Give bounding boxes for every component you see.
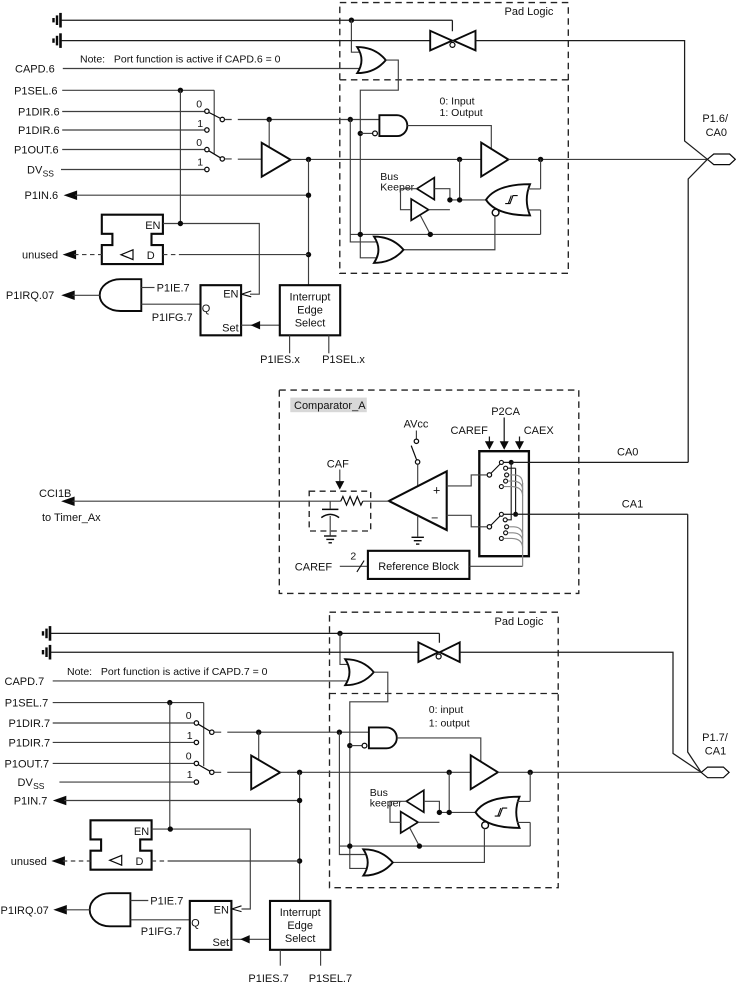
junction to OR U3 xyxy=(348,117,353,122)
wire CA0 node to exchange contact B2 xyxy=(507,462,511,519)
contact P1DIR.6-1 xyxy=(205,128,209,132)
ground symbol (comparator) xyxy=(412,537,424,544)
wire CA0 xyxy=(511,461,688,463)
arrow unused (bottom) xyxy=(51,856,65,866)
transmission gate U1 (P1.6 analog switch) xyxy=(430,31,475,51)
wire pin to keeper node (bottom) xyxy=(448,772,450,812)
pin pad P1.7/CA1 xyxy=(701,767,729,778)
svg-text:1: Output: 1: Output xyxy=(440,107,483,119)
svg-text:CAREF: CAREF xyxy=(451,425,489,437)
junction to OR U13 xyxy=(337,730,342,735)
buffer U6 (output path) xyxy=(262,143,291,177)
wire OR U12 output to NAND bubble / OR U13 xyxy=(350,672,388,868)
junction driver enable xyxy=(267,117,272,122)
svg-text:CAEX: CAEX xyxy=(524,425,555,437)
svg-text:P1IES.x: P1IES.x xyxy=(260,354,300,366)
wire edge select to Set xyxy=(241,324,280,326)
svg-text:CA1: CA1 xyxy=(705,746,726,758)
wire capacitor C1 top lead xyxy=(329,501,331,509)
svg-text:unused: unused xyxy=(22,249,58,261)
switch S2 common xyxy=(220,157,224,161)
svg-text:P2CA: P2CA xyxy=(491,406,520,418)
svg-text:1: 1 xyxy=(197,156,203,168)
ground symbol G4 (bottom) xyxy=(43,645,50,660)
contact P1DIR.6-0 xyxy=(205,109,209,113)
wire schmitt input from pin (bottom) xyxy=(517,772,530,801)
OR gate U3 (keeper enable) xyxy=(374,237,404,263)
wire B1 to CA1 node xyxy=(503,513,513,515)
svg-text:0: 0 xyxy=(186,710,192,722)
bus slash (2) xyxy=(357,561,364,572)
svg-text:Pad Logic: Pad Logic xyxy=(495,616,544,628)
AND gate U18 (interrupt) xyxy=(90,893,131,926)
wire keeper Q4 output to node xyxy=(418,821,439,823)
interrupt flag latch FF1 xyxy=(201,285,242,335)
arrow P1IRQ.07 (bottom) xyxy=(53,905,67,915)
svg-text:AVcc: AVcc xyxy=(404,418,429,430)
svg-text:Select: Select xyxy=(295,317,326,329)
svg-text:Set: Set xyxy=(212,937,229,949)
arrow Set (FF2) xyxy=(240,935,250,943)
junction ground1/OR branch xyxy=(349,18,354,23)
wire resistor to comparator tip xyxy=(363,500,389,502)
wire keeper Q1 input from node xyxy=(434,189,450,200)
svg-text:P1IES.7: P1IES.7 xyxy=(248,973,288,984)
svg-text:CAREF: CAREF xyxy=(295,561,333,573)
schmitt NOR U7 (mirrored) xyxy=(486,184,530,215)
svg-text:P1.7/: P1.7/ xyxy=(702,732,729,744)
wire ground4 to transmission gate xyxy=(51,651,419,653)
wire schmitt input 2 (bottom) xyxy=(517,822,530,846)
svg-text:P1IN.7: P1IN.7 xyxy=(14,796,48,808)
unused latch L1 (EN/D) xyxy=(102,215,163,264)
svg-text:D: D xyxy=(147,250,155,262)
wire pin to keeper node xyxy=(459,159,461,200)
wire comparator ground stub xyxy=(417,516,419,537)
contact DVss-1 (bottom) xyxy=(194,780,198,784)
wire P1IN.6 xyxy=(75,194,309,196)
stub P1SEL.7 xyxy=(320,950,322,966)
junction P1IN.6 xyxy=(306,193,311,198)
transmission gate U11 (P1.7 analog switch) xyxy=(418,642,459,662)
Pad Logic dashed box (P1.7) xyxy=(330,612,559,888)
interrupt edge select block (bottom) xyxy=(270,901,330,950)
ground symbol (CAF) xyxy=(324,536,336,543)
svg-text:CA1: CA1 xyxy=(622,499,643,511)
svg-text:EN: EN xyxy=(214,904,229,916)
arrowhead P2CA xyxy=(500,441,509,450)
svg-text:P1IE.7: P1IE.7 xyxy=(157,282,190,294)
wire DIR signal down to OR U13 input A xyxy=(339,732,365,854)
wire P1SEL.7 + switch control xyxy=(53,703,204,767)
mux wiper (+ input) xyxy=(491,464,500,473)
wire driver U5 to pin P1.6 xyxy=(508,158,707,160)
svg-text:keeper: keeper xyxy=(370,797,403,809)
svg-text:to Timer_Ax: to Timer_Ax xyxy=(42,512,101,524)
OR gate U13 (keeper enable) xyxy=(363,849,393,875)
svg-text:Keeper: Keeper xyxy=(380,182,414,194)
wire driver U15 to pin P1.7 xyxy=(498,771,701,773)
interrupt edge select block (top) xyxy=(280,285,340,335)
wire T2 to CA1 node xyxy=(508,468,516,514)
wire B5 to ref bus xyxy=(503,538,522,548)
mux contact T4 xyxy=(504,479,508,483)
svg-text:DV: DV xyxy=(18,777,34,789)
wire P1SEL.6 + switch control xyxy=(62,90,214,154)
svg-text:Note: Port function is activ: Note: Port function is active if CAPD.6 … xyxy=(80,54,281,66)
wire keeper enable (slanted) xyxy=(420,215,430,234)
svg-text:0: 0 xyxy=(196,99,202,111)
wire schmitt input 2 xyxy=(528,210,541,235)
wire edge select to Set (bottom) xyxy=(231,938,270,940)
wire S1 to NAND U4 xyxy=(225,119,380,121)
arrow P1IN.7 xyxy=(53,796,67,806)
NAND U4 inverted input bubble xyxy=(373,131,378,136)
bubble on schmitt NOR U17 xyxy=(482,822,489,829)
wire pin sense vertical to edge select (bottom) xyxy=(299,772,301,901)
contact P1DIR.7-1 xyxy=(194,740,198,744)
wire CAPD.6 to OR U2 xyxy=(63,68,360,70)
svg-text:SS: SS xyxy=(43,168,55,178)
wire keeper enable slanted (bottom) xyxy=(410,828,420,846)
wire P1DIR.7 (0) xyxy=(53,722,195,724)
junction keeper node A xyxy=(447,197,452,202)
junction pin line / bus keeper (bottom) xyxy=(447,770,452,775)
stub to NAND bubble xyxy=(360,132,372,134)
switch S1 common xyxy=(220,117,224,121)
svg-text:Select: Select xyxy=(285,933,316,945)
wire comparator - input xyxy=(447,515,488,527)
ground symbol G3 (bottom) xyxy=(43,626,50,641)
stub P1IES.7 xyxy=(279,950,281,966)
wire pin sense vertical to edge select xyxy=(308,159,310,285)
wire capacitor C1 bottom lead xyxy=(329,516,331,535)
switch S2 wiper xyxy=(209,151,221,158)
mux contact B4 xyxy=(504,531,508,535)
wire OR U3 output to schmitt bubble xyxy=(404,216,495,250)
wire P1DIR.6 (1) xyxy=(62,129,205,131)
mux contact T1 (CA0) xyxy=(499,460,503,464)
svg-text:P1SEL.7: P1SEL.7 xyxy=(309,973,352,984)
Comparator_A label xyxy=(290,398,367,413)
svg-text:EN: EN xyxy=(134,826,149,838)
junction enable net/OR U2 branch xyxy=(358,232,363,237)
wire latch L1 EN to flag FF xyxy=(163,224,259,295)
switch S3 wiper xyxy=(198,724,210,731)
wire U8 output xyxy=(73,294,100,296)
wire P2CA arrow xyxy=(503,418,505,443)
wire pin P1.6 to CA0 xyxy=(688,159,707,462)
schmitt NOR U17 (mirrored) xyxy=(476,797,520,828)
svg-text:P1IE.7: P1IE.7 xyxy=(150,895,183,907)
svg-text:0: input: 0: input xyxy=(429,704,464,716)
svg-text:P1DIR.7: P1DIR.7 xyxy=(9,737,51,749)
wire P1DIR.6 (0) xyxy=(62,111,205,113)
junction OR U12 out / NAND input xyxy=(347,743,352,748)
svg-text:Reference Block: Reference Block xyxy=(378,561,459,573)
switch S1 wiper xyxy=(209,112,221,118)
svg-text:CAPD.6: CAPD.6 xyxy=(15,63,55,75)
wire unused dashed left xyxy=(74,254,102,256)
svg-text:+: + xyxy=(433,483,440,497)
svg-text:Interrupt: Interrupt xyxy=(280,907,321,919)
svg-text:CAF: CAF xyxy=(327,458,349,470)
EN wedge (FF2) xyxy=(232,906,242,912)
svg-text:1: 1 xyxy=(187,730,193,742)
pad logic inner divider (P1.7) xyxy=(330,693,559,695)
wire latch D dashed xyxy=(163,254,181,256)
svg-text:CAPD.7: CAPD.7 xyxy=(5,676,45,688)
wire unused dashed left (bottom) xyxy=(63,860,91,862)
comparator input mux box xyxy=(479,451,529,556)
wire U16 to driver U15 xyxy=(280,771,471,773)
svg-text:P1DIR.7: P1DIR.7 xyxy=(9,718,51,730)
svg-text:CCI1B: CCI1B xyxy=(39,488,71,500)
clock triangle (latch L2) xyxy=(110,855,122,865)
wire P1OUT.6 xyxy=(62,149,205,151)
wire keeper Q2 output to node xyxy=(429,209,450,211)
svg-text:DV: DV xyxy=(27,164,43,176)
arrow CAF xyxy=(335,481,344,490)
wire latch D to pin sense (bottom) xyxy=(170,860,300,862)
ground symbol G2 (top) xyxy=(54,33,61,48)
svg-text:P1DIR.6: P1DIR.6 xyxy=(18,125,60,137)
arrow CCI1B xyxy=(61,496,75,506)
wire Reference Block output xyxy=(469,565,522,567)
junction OR U2 out / NAND input xyxy=(358,131,363,136)
mux wiper (- input) xyxy=(491,516,500,525)
mux contact T5 xyxy=(499,485,503,489)
AND gate U8 (interrupt) xyxy=(100,279,142,311)
wire comparator + input xyxy=(447,475,488,486)
bus keeper buffer Q2 (right-pointing) xyxy=(411,199,428,220)
resistor R1 (CAF) xyxy=(341,497,363,506)
capacitor C1 (CAF) xyxy=(321,509,339,517)
wire transmission gate to pin P1.6 xyxy=(476,41,708,160)
wire CAPD.7 to OR U12 xyxy=(53,680,348,682)
NAND U14 inverted input bubble xyxy=(362,743,367,748)
hysteresis symbol xyxy=(505,196,518,204)
OR gate U2 (CAPD.6) xyxy=(357,47,386,73)
junction pin line / input path xyxy=(306,157,311,162)
bus keeper buffer Q1 (left-pointing) xyxy=(417,178,434,200)
unused latch L2 (EN/D) xyxy=(91,820,152,869)
arrowhead CAREF xyxy=(485,441,494,450)
Comparator_A dashed box xyxy=(279,390,579,593)
junction D input xyxy=(306,252,311,257)
wire branch to OR U12 input A xyxy=(340,633,348,664)
Reference Block xyxy=(368,551,470,579)
wire CAEX arrow xyxy=(519,437,521,443)
junction driver enable (bottom) xyxy=(256,730,261,735)
wire CAREF arrow xyxy=(488,437,490,443)
wire reference bus vertical xyxy=(522,483,524,566)
svg-text:Comparator_A: Comparator_A xyxy=(294,400,366,412)
junction enable net/keeper xyxy=(428,232,433,237)
wire B3 to ref bus xyxy=(509,527,523,536)
wire T1 to CA0 node xyxy=(503,461,511,463)
junction keeper node D xyxy=(447,810,452,815)
bubble on schmitt NOR U7 xyxy=(492,209,499,216)
wire CAREF to Reference Block xyxy=(340,565,368,567)
mux contact B3 xyxy=(505,525,509,529)
wire B4 to ref bus xyxy=(508,533,523,542)
svg-text:CA0: CA0 xyxy=(706,127,727,139)
OR gate U12 (CAPD.7) xyxy=(345,659,374,685)
svg-text:P1IFG.7: P1IFG.7 xyxy=(141,926,182,938)
contact P1DIR.7-0 xyxy=(194,721,198,725)
wire latch L2 EN to flag FF2 xyxy=(152,829,251,909)
wire transmission gate to pin P1.7 xyxy=(460,652,702,772)
hysteresis symbol (bottom) xyxy=(495,808,508,816)
svg-text:P1OUT.6: P1OUT.6 xyxy=(14,144,59,156)
arrow Set (FF1) xyxy=(251,321,261,329)
wire to driver U5 enable xyxy=(268,120,270,148)
wire P1IE.7 input xyxy=(141,287,154,289)
svg-text:SS: SS xyxy=(33,781,45,791)
junction CA0 node xyxy=(509,460,514,465)
wire P1OUT.7 xyxy=(53,762,195,764)
wire Q to AND U18 xyxy=(130,919,189,921)
svg-text:P1IN.6: P1IN.6 xyxy=(25,190,59,202)
svg-text:Q: Q xyxy=(202,303,211,315)
clock triangle (latch L1) xyxy=(121,250,133,260)
svg-text:P1OUT.7: P1OUT.7 xyxy=(5,758,50,770)
svg-text:0: 0 xyxy=(196,137,202,149)
svg-text:2: 2 xyxy=(350,550,356,562)
bus keeper buffer Q3 (left-pointing) xyxy=(406,790,423,812)
svg-text:1: 1 xyxy=(187,769,193,781)
Pad Logic dashed box (P1.6) xyxy=(340,3,569,274)
wire P1SEL.7 vertical to EN xyxy=(169,703,171,830)
svg-text:D: D xyxy=(136,856,144,868)
junction pin line / input path (bottom) xyxy=(297,770,302,775)
wire S3 to NAND U14 xyxy=(214,731,369,733)
wire NAND U14 to driver U15 enable xyxy=(397,738,481,762)
junction keeper node C xyxy=(437,810,442,815)
mux contact B5 xyxy=(499,536,503,540)
NAND gate U4 (direction) xyxy=(379,115,407,136)
bus keeper buffer Q4 (right-pointing) xyxy=(401,812,418,833)
mux common - input xyxy=(487,525,491,529)
wire ground1 to transmission gate control xyxy=(61,20,452,31)
wire DVss (bottom) xyxy=(59,781,194,783)
wire enable net y=846.1 xyxy=(340,845,530,847)
stub to NAND bubble (bottom) xyxy=(350,745,362,747)
EN wedge (FF1) xyxy=(242,291,252,297)
junction ground3/OR branch xyxy=(337,631,342,636)
wire branch to OR U2 input A xyxy=(351,20,359,52)
wire keeper node to schmitt output xyxy=(450,199,487,201)
CAF filter dashed box xyxy=(309,491,371,531)
mux contact B1 (CA1) xyxy=(499,512,503,516)
switch S4 common xyxy=(210,770,214,774)
junction D input (bottom) xyxy=(297,858,302,863)
wire enable net y=234.4 xyxy=(350,233,540,235)
wire latch D to pin sense xyxy=(181,254,309,256)
arrow P1IRQ.07 (top) xyxy=(61,291,74,301)
junction pin line / schmitt input xyxy=(538,157,543,162)
contact AVcc switch top xyxy=(414,439,418,443)
wire CA1 to pin P1.7 xyxy=(516,514,702,772)
comparator U9 (Comparator_A) xyxy=(389,471,447,530)
svg-text:Edge: Edge xyxy=(297,304,323,316)
wire T4 to ref bus xyxy=(508,481,523,490)
svg-text:P1SEL.x: P1SEL.x xyxy=(322,354,365,366)
svg-text:−: − xyxy=(431,511,438,525)
wire to driver U15 enable xyxy=(258,732,260,760)
stub P1IES.x xyxy=(289,335,291,353)
wire schmitt input from pin xyxy=(528,159,541,189)
svg-text:Interrupt: Interrupt xyxy=(290,291,331,303)
wire P1DIR.7 (1) xyxy=(53,741,195,743)
svg-text:P1.6/: P1.6/ xyxy=(702,113,729,125)
output driver U15 xyxy=(471,755,498,789)
arrow P1IN.6 xyxy=(64,190,78,200)
AVcc switch wiper xyxy=(411,446,416,460)
svg-text:0: Input: 0: Input xyxy=(440,95,475,107)
svg-text:P1SEL.6: P1SEL.6 xyxy=(14,85,57,97)
wire DIR signal down to OR U3 input A xyxy=(350,120,376,242)
svg-text:Note: Port function is activ: Note: Port function is active if CAPD.7 … xyxy=(67,666,268,678)
wire CAF control xyxy=(339,470,341,482)
contact P1OUT.6-0 xyxy=(205,147,209,151)
svg-text:Q: Q xyxy=(191,917,200,929)
switch S3 common xyxy=(210,730,214,734)
mux common + input xyxy=(487,473,491,477)
wire U18 output xyxy=(65,909,90,911)
mux contact B2 (exchange) xyxy=(503,518,507,522)
wire S4 to buffer U16 xyxy=(214,771,251,773)
mux contact T2 (exchange) xyxy=(504,466,508,470)
svg-text:Pad Logic: Pad Logic xyxy=(505,6,554,18)
wire keeper node to schmitt output (bottom) xyxy=(439,811,476,813)
mux contact T3 xyxy=(505,473,509,477)
wire OR U2 output to NAND bubble / OR U3 xyxy=(360,60,398,258)
svg-text:Set: Set xyxy=(222,323,239,335)
wire ground2 to transmission gate xyxy=(61,40,430,42)
wire S2 to buffer U6 xyxy=(225,158,262,160)
junction enable net/OR U12 branch xyxy=(347,843,352,848)
wire P1IE.7 input (bottom) xyxy=(130,900,148,902)
svg-text:unused: unused xyxy=(11,856,47,868)
junction CA1 node xyxy=(513,512,518,517)
wire keeper loop left xyxy=(401,189,417,210)
junction P1SEL.7 xyxy=(167,700,172,705)
wire ground3 to transmission gate control xyxy=(51,633,440,642)
contact AVcc switch bottom xyxy=(415,460,419,464)
wire AVcc to switch xyxy=(415,431,417,440)
svg-text:Edge: Edge xyxy=(287,920,313,932)
wire keeper loop left (bottom) xyxy=(390,801,406,822)
junction P1IN.7 xyxy=(297,798,302,803)
arrow unused xyxy=(63,250,77,260)
output driver U5 xyxy=(481,143,508,177)
junction EN/P1SEL (bottom) xyxy=(168,826,173,831)
wire comparator output to CCI1B xyxy=(73,500,341,502)
NAND gate U14 (direction) xyxy=(369,727,397,748)
svg-text:CA0: CA0 xyxy=(617,447,638,459)
svg-text:P1DIR.6: P1DIR.6 xyxy=(18,106,60,118)
wire P1IN.7 xyxy=(64,800,299,802)
wire keeper Q3 input from node xyxy=(424,801,440,812)
wire latch D dashed (bottom) xyxy=(152,860,170,862)
wire OR U13 output to schmitt bubble xyxy=(393,828,485,862)
pad logic inner divider (P1.6) xyxy=(340,79,569,81)
svg-text:EN: EN xyxy=(223,289,238,301)
svg-text:P1SEL.7: P1SEL.7 xyxy=(5,698,48,710)
wire T5 to ref bus xyxy=(503,487,522,496)
